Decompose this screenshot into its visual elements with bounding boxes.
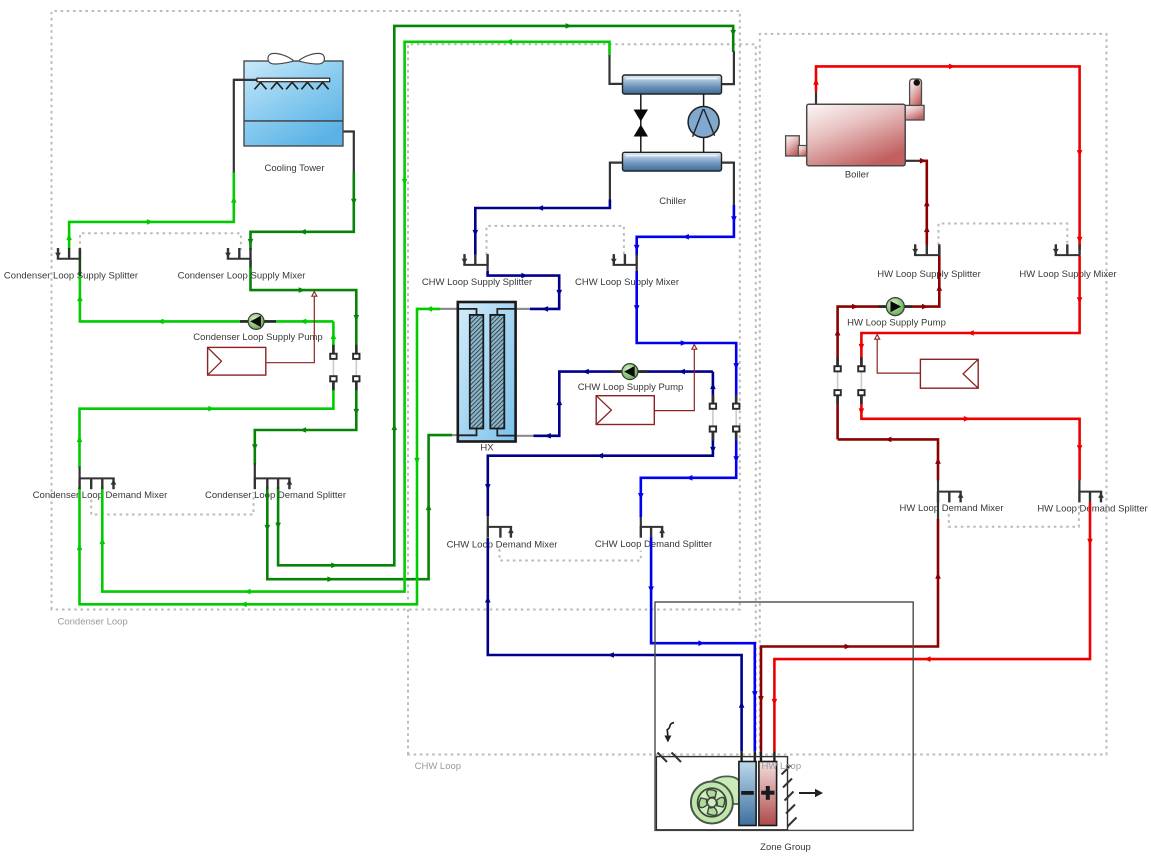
svg-text:CHW Loop: CHW Loop bbox=[415, 761, 461, 772]
mixer Condenser Loop Supply Mixer bbox=[227, 248, 252, 259]
node pair on CHW mixer branch bbox=[735, 395, 738, 407]
Condenser demand inner dashed box bbox=[91, 492, 253, 515]
zone thermostat zigzag bbox=[667, 723, 675, 736]
pump stubs condenser bbox=[240, 320, 276, 323]
mixer CHW Loop Demand Mixer bbox=[487, 527, 512, 538]
wire HX upper-left gray stub bbox=[440, 308, 458, 310]
setpoint manager box (condenser) bbox=[208, 347, 266, 375]
wire HX upper-left port to condenser demand mixer bbox=[80, 309, 441, 604]
svg-text:CHW Loop Supply Splitter: CHW Loop Supply Splitter bbox=[422, 277, 532, 288]
component Boiler body bbox=[807, 104, 906, 166]
svg-text:Condenser Loop Supply Mixer: Condenser Loop Supply Mixer bbox=[178, 271, 306, 282]
wire zone cooling coil supply stub bbox=[754, 751, 756, 762]
mixer CHW Loop Supply Mixer bbox=[613, 254, 638, 265]
splitter CHW Loop Supply Splitter bbox=[463, 254, 488, 265]
svg-text:HW Loop: HW Loop bbox=[762, 761, 802, 772]
wire condenser tower inlet riser and header bbox=[69, 173, 234, 250]
wire chiller condenser right port stub bbox=[722, 51, 734, 84]
svg-text:Boiler: Boiler bbox=[845, 170, 869, 181]
pump HW Loop Supply Pump bbox=[886, 298, 904, 316]
mixer Condenser Loop Demand Mixer bbox=[79, 478, 115, 489]
splitter HW Loop Demand Splitter bbox=[1078, 492, 1102, 503]
wire condenser pump discharge to supply splitter bbox=[80, 250, 334, 321]
setpoint manager box (CHW) bbox=[596, 396, 654, 425]
wire tower outlet pipe (dark stub from basin) bbox=[343, 132, 354, 173]
wire CHW demand splitter to zone cooling coil supply bbox=[651, 537, 755, 751]
node pair on condenser mixer-out branch bbox=[355, 345, 358, 357]
svg-text:Condenser Loop Supply Splitter: Condenser Loop Supply Splitter bbox=[4, 271, 138, 282]
zone heating coil bbox=[759, 762, 777, 826]
zone supply air arrow bbox=[799, 792, 816, 794]
wire boiler top port stub bbox=[815, 92, 817, 104]
wire chiller evaporator return from CHW supply mixer bbox=[637, 205, 734, 256]
component Chiller condenser bar bbox=[623, 75, 722, 94]
svg-text:CHW Loop Demand Mixer: CHW Loop Demand Mixer bbox=[447, 540, 558, 551]
zone cooling coil bbox=[739, 762, 756, 826]
svg-text:HW Loop Supply Mixer: HW Loop Supply Mixer bbox=[1019, 269, 1116, 280]
Zone Group box bbox=[655, 602, 913, 830]
svg-text:CHW Loop Supply Pump: CHW Loop Supply Pump bbox=[578, 382, 684, 393]
node pair on HW mixer branch bbox=[860, 357, 863, 369]
zone cooling coil minus sign bbox=[741, 791, 754, 795]
wire chiller condenser outlet to demand mixer (long return) bbox=[102, 42, 609, 592]
wire zone heating coil return to HW demand mixer bbox=[761, 519, 938, 751]
cooling tower inlet stub inside bbox=[234, 79, 258, 81]
zone supply-air hatches bbox=[782, 766, 797, 827]
setpoint manager connector (HW) bbox=[877, 340, 920, 374]
wire HW supply mixer down through nodes to demand splitter bbox=[861, 256, 1079, 480]
pump stubs HW bbox=[878, 305, 912, 308]
cooling tower spray header bar bbox=[257, 78, 330, 82]
wire HX upper-right gray stub bbox=[516, 308, 530, 310]
node pair on CHW pump branch bbox=[712, 395, 715, 407]
splitter Condenser Loop Demand Splitter bbox=[254, 478, 291, 489]
setpoint manager box (HW) bbox=[920, 359, 978, 388]
wire chiller evaporator left port stub bbox=[610, 163, 623, 200]
cooling tower fan blades bbox=[268, 53, 324, 64]
wire condenser demand splitter branch to HX lower-left port bbox=[267, 435, 452, 579]
wire HW demand mixer up to pump suction bbox=[838, 439, 938, 480]
setpoint manager node triangle (condenser) bbox=[312, 292, 317, 297]
svg-text:Zone Group: Zone Group bbox=[760, 842, 811, 853]
condenser splitter-to-pump black joint bbox=[79, 249, 81, 276]
wire CHW pump branch down to demand mixer bbox=[488, 372, 713, 516]
svg-text:CHW Loop Demand Splitter: CHW Loop Demand Splitter bbox=[595, 539, 712, 550]
svg-text:HX: HX bbox=[480, 443, 494, 454]
node pair on condenser pump suction branch bbox=[332, 345, 335, 357]
zone fan volute bbox=[712, 776, 742, 804]
CHW supply inner dashed box bbox=[487, 226, 624, 255]
setpoint manager node triangle (HW) bbox=[875, 335, 880, 340]
pump CHW Loop Supply Pump bbox=[622, 364, 638, 380]
wire condenser supply mixer outlet to demand splitter bbox=[251, 259, 357, 465]
pump Condenser Loop Supply Pump bbox=[248, 313, 264, 329]
svg-text:Condenser Loop: Condenser Loop bbox=[58, 617, 128, 628]
cooling tower spray nozzles bbox=[255, 82, 267, 89]
svg-text:HW Loop Supply Pump: HW Loop Supply Pump bbox=[847, 318, 946, 329]
chiller compressor bbox=[703, 94, 705, 152]
wire tower outlet to condenser supply mixer bbox=[251, 173, 354, 251]
wire boiler right port stub bbox=[905, 160, 921, 162]
HX plate column right bbox=[490, 315, 504, 429]
cooling tower water line bbox=[244, 120, 343, 122]
wire CHW supply mixer down through nodes to demand splitter bbox=[637, 271, 737, 517]
HW demand inner dashed box bbox=[949, 504, 1079, 527]
wire chiller condenser left port stub bbox=[610, 55, 623, 84]
component Boiler chimney bbox=[910, 79, 922, 107]
zone heating coil plus sign bbox=[761, 791, 774, 795]
mixer HW Loop Supply Mixer bbox=[1055, 244, 1081, 255]
wire chiller evaporator outlet to CHW supply splitter bbox=[475, 200, 610, 256]
CHW Loop boundary box bbox=[408, 44, 756, 754]
component HX shell bbox=[458, 302, 516, 442]
wire boiler outlet to HW supply mixer bbox=[816, 66, 1080, 250]
component Boiler left fitting bbox=[786, 136, 800, 156]
svg-text:Condenser Loop Demand Mixer: Condenser Loop Demand Mixer bbox=[33, 490, 168, 501]
zone return-air hatches bbox=[658, 753, 682, 763]
HX internal connector lines bbox=[459, 309, 515, 436]
svg-text:HW Loop Demand Mixer: HW Loop Demand Mixer bbox=[899, 503, 1003, 514]
CHW demand inner dashed box bbox=[500, 549, 641, 561]
svg-text:Condenser Loop Demand Splitter: Condenser Loop Demand Splitter bbox=[205, 490, 346, 501]
wire chiller evaporator right port stub bbox=[722, 163, 734, 205]
svg-text:Cooling Tower: Cooling Tower bbox=[264, 163, 324, 174]
HW Loop boundary box bbox=[760, 34, 1107, 755]
wire zone cooling coil return to CHW demand mixer bbox=[488, 538, 742, 751]
HW supply inner dashed box bbox=[939, 224, 1068, 246]
setpoint manager connector (CHW) bbox=[654, 350, 694, 411]
wire CHW supply splitter to HX upper-right port bbox=[488, 271, 560, 309]
mixer HW Loop Demand Mixer bbox=[937, 492, 962, 503]
splitter Condenser Loop Supply Splitter bbox=[57, 248, 81, 259]
wire condenser demand splitter branch to chiller condenser (long riser) bbox=[278, 26, 733, 565]
Condenser supply inner dashed box bbox=[80, 233, 241, 250]
pump stubs CHW bbox=[613, 370, 648, 373]
zone fan bbox=[691, 782, 733, 824]
Condenser Loop boundary box bbox=[52, 11, 740, 610]
svg-text:Chiller: Chiller bbox=[659, 196, 686, 207]
wire HX lower-right port to CHW pump bbox=[534, 372, 713, 436]
wire HW demand splitter to zone heating coil supply bbox=[774, 502, 1090, 751]
wire condenser demand mixer outlet to pump suction bbox=[80, 321, 334, 467]
setpoint manager connector (condenser) bbox=[266, 297, 315, 363]
svg-text:CHW Loop Supply Mixer: CHW Loop Supply Mixer bbox=[575, 277, 679, 288]
zone air handler box bbox=[656, 757, 787, 830]
wire HX lower-right gray stub bbox=[516, 435, 534, 437]
splitter HW Loop Supply Splitter bbox=[914, 244, 940, 255]
wire HW pump circuit (demand mixer to supply splitter) bbox=[838, 246, 940, 439]
component Cooling Tower body bbox=[244, 61, 343, 146]
wire zone heating coil return stub bbox=[760, 751, 762, 762]
chiller expansion valve bbox=[640, 94, 642, 152]
black pipe joints at splitters and mixers bbox=[249, 259, 251, 268]
svg-text:Condenser Loop Supply Pump: Condenser Loop Supply Pump bbox=[193, 332, 322, 343]
wire HW supply splitter to boiler inlet bbox=[921, 161, 927, 245]
wire zone heating coil supply stub bbox=[773, 751, 775, 762]
wire zone cooling coil return stub bbox=[740, 751, 742, 762]
component Boiler right fitting bbox=[905, 105, 924, 120]
component Chiller evaporator bar bbox=[623, 152, 722, 171]
wire tower inlet pipe (dark stub to spray bar) bbox=[234, 80, 258, 173]
splitter CHW Loop Demand Splitter bbox=[640, 527, 664, 538]
HX plate column left bbox=[470, 315, 484, 429]
setpoint manager node triangle (CHW) bbox=[692, 345, 697, 350]
svg-text:HW Loop Demand Splitter: HW Loop Demand Splitter bbox=[1037, 504, 1147, 515]
wire HX lower-left gray stub bbox=[452, 434, 458, 436]
node pair on HW pump suction branch bbox=[836, 357, 839, 369]
svg-text:HW Loop Supply Splitter: HW Loop Supply Splitter bbox=[877, 269, 981, 280]
